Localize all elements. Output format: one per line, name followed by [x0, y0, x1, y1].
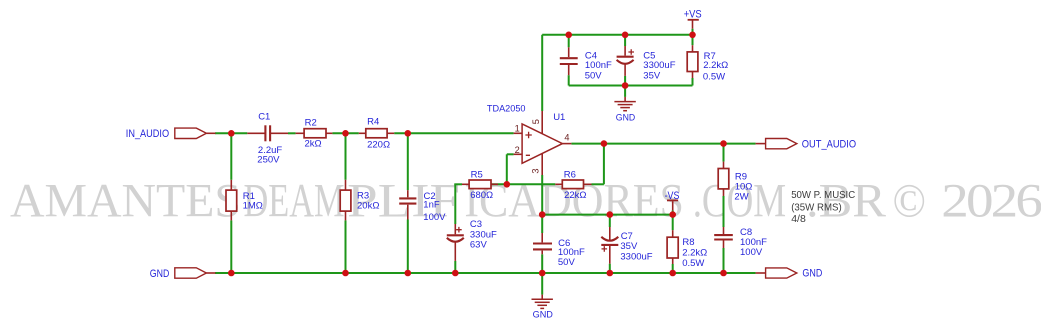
svg-text:63V: 63V — [470, 240, 488, 251]
pin wire C8 top — [723, 227, 725, 234]
junction rail at C3 — [452, 270, 459, 277]
svg-text:(35W RMS): (35W RMS) — [791, 202, 842, 214]
pin wire C7 top — [609, 227, 611, 241]
wire C6 bottom stub — [541, 254, 543, 273]
svg-text:2W: 2W — [734, 192, 748, 203]
op-amp minus input mark — [526, 154, 530, 156]
svg-text:C1: C1 — [258, 112, 270, 123]
op-amp plus input mark — [525, 132, 531, 138]
pin wire R4 right — [387, 132, 394, 134]
pin wire -VS supply stub — [672, 201, 674, 210]
svg-text:2.2kΩ: 2.2kΩ — [682, 247, 707, 258]
junction rail at C8 — [720, 270, 727, 277]
svg-text:3300uF: 3300uF — [620, 252, 652, 263]
wire C7 top stub — [609, 215, 611, 227]
pin wire C8 bottom — [723, 240, 725, 248]
wire C6 top stub — [541, 215, 543, 233]
junction output at R9 — [720, 140, 727, 147]
wire input net main horizontal — [215, 132, 247, 134]
wire R3 top column — [345, 133, 347, 180]
pin wire R9 top — [723, 162, 725, 169]
junction top rail at R7 — [689, 32, 696, 39]
svg-text:0.5W: 0.5W — [682, 258, 704, 269]
label R3 — [357, 191, 379, 212]
junction rail at C6 — [539, 270, 546, 277]
label R4 — [367, 117, 390, 151]
svg-text:35V: 35V — [620, 241, 638, 252]
capacitor C2 plates — [399, 197, 416, 199]
label C7 — [620, 231, 652, 263]
label R9 — [734, 171, 752, 202]
pin wire R6 right — [584, 183, 592, 185]
svg-text:-VS: -VS — [665, 190, 680, 202]
junction input at R3 — [342, 130, 349, 137]
pin wire C2 top — [407, 190, 409, 197]
note text — [791, 189, 855, 225]
wire R1 top column — [230, 133, 232, 180]
svg-text:2: 2 — [515, 145, 520, 155]
pin wire OUT_AUDIO flag — [756, 143, 766, 145]
svg-text:1nF: 1nF — [423, 200, 440, 211]
ground symbol top — [614, 102, 635, 111]
svg-text:GND: GND — [150, 268, 170, 280]
svg-text:GND: GND — [802, 268, 822, 280]
pin wire top ground symbol — [624, 97, 626, 102]
pin wire C7 bottom — [609, 245, 611, 264]
pin wire R8 bottom — [672, 258, 674, 264]
resistor R1 — [226, 190, 237, 211]
capacitor C5 polarized plates — [617, 56, 634, 58]
svg-text:20kΩ: 20kΩ — [357, 200, 379, 211]
wire pin3 column — [541, 175, 543, 215]
svg-text:U1: U1 — [553, 112, 565, 123]
wire C5 bottom stub — [624, 76, 626, 86]
pin wire C2 bottom — [407, 205, 409, 220]
svg-text:R5: R5 — [471, 170, 483, 181]
svg-text:GND: GND — [533, 310, 553, 321]
port flag OUT_AUDIO — [766, 139, 797, 149]
port flag GND right — [766, 268, 797, 278]
capacitor C8 plates — [714, 234, 733, 236]
junction top ground at C5 — [622, 82, 629, 89]
pin wire R6 left — [555, 183, 562, 185]
label C6 — [558, 238, 585, 268]
pin wire R9 bottom — [723, 189, 725, 196]
label C8 — [740, 227, 767, 258]
wire R3 bottom column — [345, 220, 347, 273]
svg-text:1MΩ: 1MΩ — [243, 200, 263, 211]
svg-text:+VS: +VS — [684, 9, 702, 21]
label C5 — [643, 50, 675, 81]
wire R7 top stub — [692, 35, 694, 45]
pin wire C1 left — [247, 132, 264, 134]
pin wire +VS supply stub — [692, 20, 694, 28]
junction top rail at C5 — [622, 32, 629, 39]
wire bottom ground symbol stub — [541, 273, 543, 295]
svg-text:3: 3 — [531, 168, 541, 173]
resistor R3 — [340, 190, 351, 211]
wire R9 to C8 — [723, 196, 725, 227]
ground symbol bottom — [532, 299, 553, 308]
svg-text:OUT_AUDIO: OUT_AUDIO — [802, 138, 856, 150]
svg-text:680Ω: 680Ω — [470, 190, 493, 201]
svg-text:2.2kΩ: 2.2kΩ — [703, 60, 728, 71]
capacitor C4 plates — [560, 57, 578, 59]
wire top ground stub — [624, 86, 626, 97]
pin wire C3 bottom — [454, 242, 456, 261]
pin wire R1 bottom — [230, 211, 232, 220]
junction -VS net at C7 — [607, 211, 614, 218]
junction rail at R8 — [669, 270, 676, 277]
wire R6 to feedback corner — [592, 183, 604, 185]
pin wire C3 top — [454, 224, 456, 234]
plus mark C7 — [602, 246, 608, 252]
wire C4 bottom stub — [568, 75, 570, 85]
wire R4 to op-amp pin 1 — [394, 132, 513, 134]
pin wire R7 bottom — [692, 72, 694, 79]
pin wire R3 bottom — [345, 211, 347, 220]
label C3 — [470, 219, 497, 251]
supply bar -VS — [667, 199, 678, 201]
junction top rail at C4 — [565, 32, 572, 39]
resistor R4 — [366, 129, 387, 138]
pin wire C5 top — [624, 46, 626, 56]
svg-text:220Ω: 220Ω — [367, 140, 390, 151]
pin wire C1 right — [271, 132, 288, 134]
junction rail at C2 — [405, 270, 412, 277]
svg-text:C3: C3 — [470, 219, 482, 230]
svg-text:100nF: 100nF — [585, 60, 612, 71]
plus mark C3 — [456, 227, 462, 233]
svg-text:2kΩ: 2kΩ — [305, 139, 322, 150]
svg-text:TDA2050: TDA2050 — [487, 104, 526, 115]
junction feedback node — [504, 181, 511, 188]
label C1 — [257, 112, 282, 166]
svg-text:0.5W: 0.5W — [703, 71, 725, 82]
pin wire GND left flag — [206, 272, 215, 274]
wire pin2 horizontal — [507, 153, 514, 155]
svg-text:250V: 250V — [257, 154, 280, 165]
label R1 — [243, 191, 263, 211]
junction -VS net at R8 — [669, 211, 676, 218]
wire pin2 vertical — [506, 154, 508, 185]
wire between R2 and R4 — [332, 132, 358, 134]
supply bar +VS — [688, 19, 699, 21]
wire -VS stub — [672, 210, 674, 214]
label R5 — [470, 170, 493, 201]
label R8 — [682, 237, 707, 269]
resistor R9 — [718, 169, 729, 189]
wire C5 top stub — [624, 35, 626, 46]
svg-text:IN_AUDIO: IN_AUDIO — [126, 128, 169, 140]
capacitor C1 plates — [264, 125, 266, 141]
junction rail at R3 — [342, 270, 349, 277]
wire negative supply net — [542, 214, 673, 216]
junction input at R1 — [228, 130, 235, 137]
svg-text:50W P. MUSIC: 50W P. MUSIC — [791, 189, 855, 201]
junction rail at C7 — [607, 270, 614, 277]
wire top section ground rail — [569, 85, 693, 87]
pin wire R3 top — [345, 180, 347, 190]
wire R1 bottom column — [230, 220, 232, 273]
port flag GND left — [175, 268, 207, 278]
resistor R8 — [667, 237, 678, 258]
label R7 — [703, 51, 728, 82]
wire feedback vertical — [603, 143, 605, 185]
resistor R6 — [562, 180, 583, 189]
pin wire R4 left — [359, 132, 366, 134]
svg-text:100V: 100V — [423, 212, 446, 223]
pin wire R1 top — [230, 180, 232, 190]
pin wire op-amp pin 3 — [541, 154, 543, 176]
wire C2 bottom column — [407, 220, 409, 274]
wire C8 bottom column — [723, 248, 725, 273]
wire output net — [571, 143, 755, 145]
junction -VS net at pin3 — [539, 211, 546, 218]
wire C3 bottom column — [454, 261, 456, 273]
resistor R7 — [687, 52, 698, 72]
wire C7 bottom stub — [609, 264, 611, 273]
label C4 — [585, 50, 612, 81]
op-amp U1 triangle — [522, 124, 562, 163]
pin wire op-amp pin 4 — [562, 143, 571, 145]
resistor R2 — [304, 129, 326, 138]
label R6 — [564, 170, 587, 202]
junction output at feedback — [601, 140, 608, 147]
pin wire R2 left — [296, 132, 305, 134]
pin wire bottom ground symbol — [541, 295, 543, 299]
pin wire IN_AUDIO flag — [206, 132, 215, 134]
svg-text:R4: R4 — [367, 117, 379, 128]
svg-text:22kΩ: 22kΩ — [564, 190, 586, 201]
svg-text:3300uF: 3300uF — [643, 60, 675, 71]
wire R8 bottom stub — [672, 264, 674, 273]
pin wire R2 right — [326, 132, 332, 134]
pin wire C6 bottom — [541, 251, 543, 255]
pin wire R8 top — [672, 230, 674, 237]
wire R7 bottom stub — [692, 78, 694, 86]
svg-text:5: 5 — [531, 119, 541, 124]
wire C3 to R5 — [454, 183, 462, 185]
pin wire R5 left — [462, 183, 469, 185]
svg-text:1: 1 — [515, 123, 520, 133]
pin wire C5 bottom — [624, 64, 626, 76]
wire C3 top column — [454, 184, 456, 224]
wire top positive rail — [542, 34, 692, 36]
svg-text:50V: 50V — [558, 257, 576, 268]
pin wire R7 top — [692, 45, 694, 52]
pin wire GND right flag — [756, 272, 766, 274]
pin wire C4 top — [568, 47, 570, 57]
label R2 — [305, 118, 322, 150]
resistor R5 — [469, 180, 491, 189]
svg-text:R2: R2 — [305, 118, 317, 129]
pin wire op-amp pin 1 — [514, 132, 523, 134]
pin wire op-amp pin 2 — [514, 153, 523, 155]
junction rail at R1 — [228, 270, 235, 277]
pin wire R5 right — [491, 183, 498, 185]
wire R5 to R6 — [491, 183, 555, 185]
wire R9 top column — [723, 144, 725, 162]
wire R8 top stub — [672, 215, 674, 231]
pin wire op-amp pin 5 — [541, 111, 543, 134]
wire between C1 and R2 — [288, 132, 296, 134]
wire pin5 column — [541, 35, 543, 111]
wire C4 top stub — [568, 35, 570, 48]
pin wire C6 top — [541, 233, 543, 242]
svg-text:4: 4 — [564, 133, 569, 143]
wire C2 top column — [407, 133, 409, 190]
svg-text:100V: 100V — [740, 247, 763, 258]
svg-text:50V: 50V — [585, 71, 603, 82]
junction input at C2 — [405, 130, 412, 137]
plus mark C5 — [628, 49, 634, 55]
capacitor C3 polarized plates — [447, 234, 464, 236]
svg-text:GND: GND — [616, 113, 636, 124]
label C2 — [423, 191, 446, 223]
pin wire C4 bottom — [568, 65, 570, 76]
port flag IN_AUDIO — [175, 128, 207, 138]
wire +VS to rail — [692, 29, 694, 35]
wire bottom ground rail — [215, 272, 756, 274]
svg-text:4/8: 4/8 — [791, 213, 806, 225]
capacitor C6 plates — [533, 242, 552, 244]
svg-text:35V: 35V — [643, 71, 661, 82]
capacitor C7 polarized plates — [601, 237, 618, 241]
svg-text:R6: R6 — [564, 170, 576, 181]
